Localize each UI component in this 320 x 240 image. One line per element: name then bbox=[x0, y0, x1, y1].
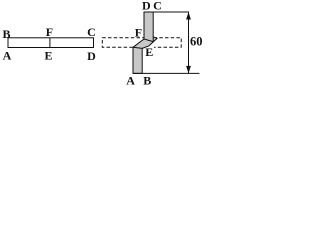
dimension line bbox=[188, 12, 190, 73]
right: bottom crease bbox=[133, 47, 142, 48]
right: top bar right edge below tip bbox=[152, 37, 154, 42]
svg-text:D: D bbox=[87, 49, 96, 63]
svg-text:E: E bbox=[145, 45, 153, 59]
right: folded strip (gray Z) bbox=[133, 12, 157, 73]
svg-text:C: C bbox=[87, 25, 96, 39]
svg-text:A: A bbox=[126, 74, 135, 88]
left: strip rectangle ABCD bbox=[8, 38, 94, 48]
svg-text:C: C bbox=[153, 0, 162, 13]
left: fold line EF bbox=[49, 38, 51, 48]
top extension line bbox=[153, 11, 189, 13]
arrow up bbox=[186, 12, 191, 20]
svg-text:A: A bbox=[3, 49, 12, 63]
svg-text:F: F bbox=[46, 25, 53, 39]
svg-text:D: D bbox=[142, 0, 151, 13]
svg-text:B: B bbox=[2, 27, 10, 41]
bottom extension line bbox=[133, 72, 200, 74]
white patch under E label (erase dashes) bbox=[145, 44, 155, 57]
svg-text:F: F bbox=[135, 25, 142, 39]
right: dashed slot band bbox=[102, 38, 181, 48]
arrow down bbox=[186, 66, 191, 74]
svg-text:B: B bbox=[143, 74, 151, 88]
svg-text:60: 60 bbox=[190, 35, 203, 49]
right: top crease bbox=[144, 39, 153, 42]
svg-text:E: E bbox=[44, 48, 52, 62]
